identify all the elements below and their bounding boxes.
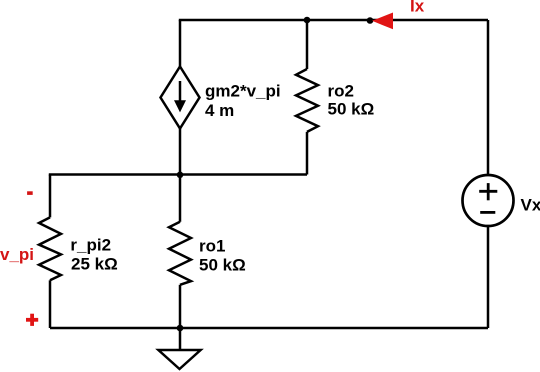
svg-text:gm2*v_pi: gm2*v_pi bbox=[205, 82, 281, 101]
svg-text:25 kΩ: 25 kΩ bbox=[71, 254, 118, 273]
svg-text:r_pi2: r_pi2 bbox=[70, 236, 111, 255]
svg-text:4 m: 4 m bbox=[205, 101, 234, 120]
svg-text:Vx: Vx bbox=[521, 195, 540, 214]
svg-text:ro1: ro1 bbox=[199, 236, 225, 255]
svg-text:Ix: Ix bbox=[410, 0, 425, 16]
svg-text:v_pi: v_pi bbox=[0, 245, 34, 264]
svg-text:ro2: ro2 bbox=[328, 82, 354, 101]
svg-text:50 kΩ: 50 kΩ bbox=[199, 255, 246, 274]
svg-text:50 kΩ: 50 kΩ bbox=[328, 100, 375, 119]
